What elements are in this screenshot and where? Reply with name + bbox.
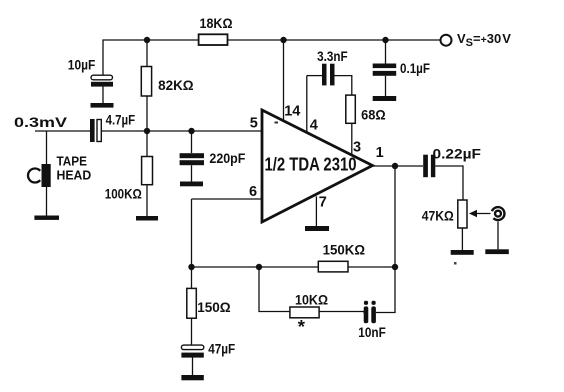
node input 82K — [144, 128, 150, 134]
svg-text:5: 5 — [250, 116, 258, 132]
wire 10K branch vertical — [259, 267, 290, 312]
svg-text:150KΩ: 150KΩ — [323, 242, 366, 258]
wire jack to ground — [497, 222, 499, 250]
wire 220pF top lead — [191, 131, 193, 153]
wire 82K bottom lead — [146, 96, 148, 131]
wire top rail left segment — [103, 40, 200, 75]
capacitor 3.3nF plates — [322, 64, 335, 86]
potentiometer 47K body — [458, 200, 467, 228]
output jack inner circle — [495, 211, 501, 217]
terminal Vs circle — [441, 35, 452, 46]
svg-text:47KΩ: 47KΩ — [422, 208, 454, 224]
wire 3.3nF left — [307, 75, 322, 77]
svg-text:6: 6 — [249, 184, 257, 200]
wire 150R top lead — [191, 267, 193, 288]
wire pin7 lead — [315, 196, 317, 226]
capacitor 4.7uF plate outlined — [97, 120, 101, 142]
tape head body — [42, 164, 51, 187]
wire 100K top lead — [146, 131, 148, 157]
svg-text:47µF: 47µF — [208, 340, 235, 356]
svg-text:10nF: 10nF — [358, 324, 386, 340]
capacitor 47uF top plate — [181, 345, 203, 350]
wire 0.1uF bottom lead — [385, 76, 387, 96]
wire wiper to jack — [471, 213, 491, 215]
wire tape head top lead — [46, 131, 48, 164]
resistor 10K — [290, 307, 319, 318]
svg-text:4.7µF: 4.7µF — [106, 111, 136, 127]
node 82K top — [144, 37, 150, 43]
wire pin6 vertical to feedback — [191, 199, 193, 267]
speck near pin14 — [275, 122, 279, 124]
capacitor 220pF plates — [180, 153, 204, 165]
resistor 150R — [187, 288, 197, 318]
resistor 68R — [346, 95, 356, 123]
wire input line mid — [102, 130, 262, 132]
svg-text:150Ω: 150Ω — [197, 299, 231, 315]
node pin14 rail — [280, 37, 286, 43]
wire feedback vertical right — [394, 166, 396, 267]
svg-text:0.3mV: 0.3mV — [14, 114, 68, 130]
node feedback right — [392, 264, 398, 270]
svg-text:3.3nF: 3.3nF — [317, 48, 348, 64]
op-amp U1 triangle — [262, 110, 373, 222]
resistor 18K — [199, 34, 228, 45]
svg-text:10µF: 10µF — [68, 57, 96, 73]
svg-text:1: 1 — [376, 145, 384, 161]
wire 150R to 47uF — [191, 318, 193, 345]
svg-text:10KΩ: 10KΩ — [295, 291, 328, 307]
wire 47uF to ground — [192, 358, 194, 376]
wire 10uF to ground — [102, 87, 104, 103]
ground under 220pF — [180, 182, 203, 187]
wire 68R to pin3 — [351, 123, 353, 156]
svg-text:18KΩ: 18KΩ — [200, 15, 233, 31]
tape head gap symbol — [28, 169, 40, 183]
wire pin6 horizontal — [192, 198, 262, 200]
ground under pin7 — [305, 226, 329, 231]
wire 10K to 10nF — [319, 312, 364, 313]
capacitor 0.1uF plates — [373, 64, 397, 76]
wire input line left — [35, 130, 90, 132]
ground under tape head — [34, 216, 59, 220]
ground under 100K — [136, 216, 158, 221]
svg-text:1/2 TDA 2310: 1/2 TDA 2310 — [265, 154, 357, 175]
resistor 82K — [141, 67, 151, 97]
svg-text:HEAD: HEAD — [57, 168, 92, 183]
node input 220pF — [188, 128, 194, 134]
ground under 0.1uF — [373, 96, 397, 101]
svg-text:3: 3 — [353, 139, 361, 155]
potentiometer 47K wiper arrow — [469, 210, 477, 217]
svg-text:82KΩ: 82KΩ — [158, 77, 194, 93]
resistor 100K — [142, 157, 153, 185]
capacitor 0.22uF plates — [423, 155, 435, 178]
capacitor 10uF bottom plate — [91, 82, 113, 87]
wire output cap to pot — [435, 166, 463, 200]
node 0.1uF rail — [382, 37, 388, 43]
node output — [392, 163, 398, 169]
resistor 150K — [318, 261, 348, 272]
svg-text:0.1µF: 0.1µF — [400, 60, 430, 76]
svg-text:4: 4 — [310, 118, 318, 134]
wire 220pF bottom lead — [191, 165, 193, 181]
ground under jack — [485, 249, 509, 254]
ground under 10uF — [91, 103, 114, 108]
output jack outer circle — [492, 207, 505, 220]
ground under 47uF — [181, 375, 203, 380]
wire feedback right lower — [376, 267, 395, 313]
wire tape head bottom lead — [46, 187, 48, 216]
wire feedback horizontal — [192, 266, 319, 268]
node feedback mid — [256, 264, 262, 270]
wire pin14 from rail — [283, 40, 285, 121]
svg-text:0.22µF: 0.22µF — [433, 145, 482, 161]
svg-text:*: * — [298, 316, 306, 337]
svg-text:220pF: 220pF — [209, 150, 245, 166]
capacitor 10uF top plate — [91, 75, 113, 80]
wire 100K bottom lead — [146, 185, 148, 216]
svg-text:100KΩ: 100KΩ — [105, 186, 142, 202]
capacitor 10nF plates — [364, 301, 376, 323]
wire pin4 lead — [306, 76, 308, 135]
wire 82K top lead — [146, 40, 148, 67]
speck below pot ground — [454, 262, 457, 265]
wire 0.1uF top lead — [385, 40, 387, 64]
svg-text:68Ω: 68Ω — [361, 107, 386, 123]
wire output to cap — [373, 165, 424, 167]
wire pot bottom lead — [461, 228, 463, 250]
wire 150K right lead — [348, 266, 395, 268]
wire top rail mid segment — [228, 39, 440, 41]
node feedback left — [188, 264, 194, 270]
svg-text:14: 14 — [284, 103, 300, 119]
ground under pot — [451, 250, 474, 255]
capacitor 47uF bottom plate — [181, 353, 203, 358]
svg-text:TAPE: TAPE — [57, 154, 88, 169]
svg-text:7: 7 — [319, 194, 327, 210]
capacitor 4.7uF plate solid — [90, 119, 95, 142]
wire 3.3nF right — [335, 76, 352, 96]
